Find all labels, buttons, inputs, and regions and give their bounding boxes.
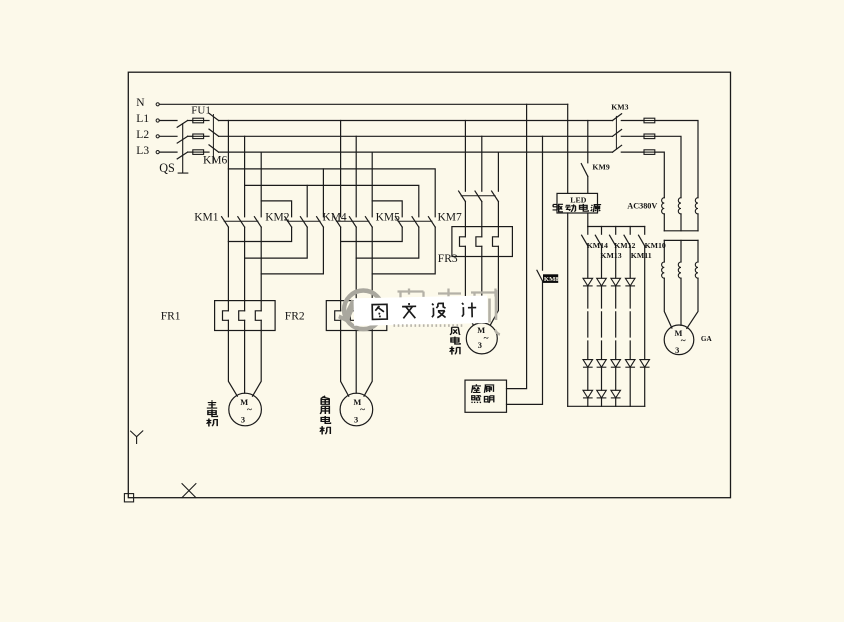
wire L3 drop to KM7 pole3 [497,152,499,191]
lighting box 座厕照明 [465,380,507,412]
contactor KM2 pole1 blade [285,217,292,227]
axis marker Y [131,431,143,444]
svg-text:3: 3 [354,415,358,424]
contactor KM1 pole2 blade [238,217,245,227]
wire string1 tail [587,398,589,406]
svg-text:KM4: KM4 [322,211,347,223]
svg-text:KM12: KM12 [614,241,635,250]
svg-text:FR1: FR1 [161,310,181,322]
svg-text:L1: L1 [136,113,149,125]
thermal relay FR2 box [326,301,387,331]
wire L3 entry [159,151,177,153]
wire primary star 1 [663,214,665,231]
wire L1 drop to KM4 pole1 [340,121,342,217]
wire primary star 2 [680,214,682,231]
watermark gray logo ring [344,291,383,330]
contactor KM6 pole 1 blade [209,113,219,120]
switch QS pole 3 [177,152,187,159]
diode row3 string3 [611,390,621,398]
wire FR3 through 1 [464,227,466,257]
contactor KM1 pole1 blade [222,217,229,227]
contactor KM5 pole2 blade [412,217,419,227]
wire primary star 3 [697,214,699,231]
contactor KM7 pole2 blade [475,191,482,201]
wire L1 bus [219,120,613,122]
wire LED driver output [587,213,589,227]
label 驱动电源 under LED [553,204,563,211]
contactor KM2 pole3 blade [317,217,324,227]
contactor KM5 pole3 blade [428,217,435,227]
wire KM8 to lighting box [507,281,543,404]
wire L3 after KM3 [621,151,644,153]
watermark gray dotted line [394,324,464,327]
wire LED string 3 drop [615,227,617,235]
KM4 linkage [336,220,369,222]
FR1 element 3 [255,311,261,321]
motor M1 circle [229,393,262,426]
wire N end drop to LED driver [567,104,569,193]
wire string4 tail [629,367,631,406]
wire secondary drop 3 [697,240,699,262]
wire FR2 through 2 [355,301,357,331]
wire L3 to primary left [655,152,665,198]
wire L1 drop to KM1 pole1 [227,121,229,217]
wire FR3 to fan left [465,257,473,325]
wire L1 after KM3 [621,120,644,122]
KM2 linkage [287,220,320,222]
contactor KM7 pole3 blade [492,191,499,201]
wire LED string 4 drop [629,227,631,235]
svg-text:~: ~ [247,405,252,415]
FR2 element 1 [335,311,341,321]
FR1 element 1 [223,311,229,321]
transformer secondary coil 1 [662,262,665,278]
wire L2 QS to fuse [188,135,193,137]
svg-text:~: ~ [681,337,686,347]
wire string3 dashed [615,286,617,360]
wire row B (L2 branch) [245,185,419,216]
svg-text:~: ~ [484,334,489,344]
wire FR3 to fan mid [481,257,483,323]
KM6 linkage [212,115,214,163]
contactor KM13 blade [595,235,601,246]
contactor KM6 pole 3 blade [209,145,219,152]
wire KM7 pole3 to FR3 [497,202,499,227]
diode row1 string3 [611,278,621,286]
wire L2 drop to KM1 pole2 [244,136,246,217]
fuse FU2 pole2 [644,134,655,139]
wire KM5 pole3 out join [372,227,435,274]
wire FR1 to motor1 right [253,331,262,397]
diode row3 string2 [597,390,607,398]
wire secondary drop 1 [663,240,665,262]
svg-text:FU1: FU1 [191,105,211,117]
label KM8 inverse chip [543,274,558,283]
wire N drop to lighting box [507,104,527,388]
svg-text:FR2: FR2 [285,310,305,322]
KM3 linkage [615,116,617,149]
wire string1 seg1 [587,246,589,278]
contactor KM5 pole1 blade [395,217,402,227]
svg-text:LED: LED [570,195,586,204]
diode row2 string5 [640,360,650,368]
motor fan circle [466,323,497,354]
wire fuse to KM6 pole3 [204,151,209,153]
watermark gray text tops (behind box) [398,289,498,299]
diode row2 string1 [583,360,593,368]
watermark gray glyph right of box [490,290,501,334]
contactor KM9 blade [581,164,588,177]
FR3 element 1 [460,237,466,247]
wire row A (L1 branch) [228,169,435,217]
transformer primary coil 1 [662,198,665,214]
wire KM2 pole3 out join [261,227,323,274]
svg-text:KM8: KM8 [544,276,560,283]
wire string3 seg3 [615,367,617,390]
diode row1 string2 [597,278,607,286]
wire string4 seg1 [629,246,631,278]
diode row2 string2 [597,360,607,368]
wire KM5 pole2 out join [356,227,419,258]
svg-text:3: 3 [241,415,245,424]
wire secondary to gen left [664,278,672,328]
contactor KM4 pole3 blade [365,217,372,227]
wire L2 bus [219,135,613,137]
wire L1 to primary right [655,121,698,198]
wire FR2 to motor2 left [341,331,349,397]
wire KM4 pole1 down to FR2 [340,227,342,301]
svg-text:KM14: KM14 [587,241,608,250]
watermark text 图 文 设 计 [372,302,476,320]
frame border [128,72,730,498]
label 主电机 (main motor) [207,400,217,408]
svg-text:QS: QS [159,161,175,175]
diode row2 string4 [625,360,635,368]
transformer secondary coil 2 [678,262,681,278]
svg-text:3: 3 [675,346,679,355]
contactor KM3 pole3 blade [613,145,622,152]
wire KM7 pole2 to FR3 [481,202,483,227]
axis marker X [182,484,196,498]
wire string5 tail [644,367,646,406]
wire LED bottom bus [568,405,645,407]
FR1 element 2 [239,311,245,321]
transformer primary coil 3 [695,198,698,214]
wire L2 to primary mid [655,136,681,197]
wire KM1 pole1 down to FR1 [227,227,229,301]
diode row1 string1 [583,278,593,286]
FR3 element 2 [476,237,482,247]
svg-text:KM2: KM2 [265,211,290,223]
svg-text:KM5: KM5 [376,211,401,223]
label 备用电机 (backup motor) [321,396,330,404]
contactor KM6 pole 2 blade [209,129,219,136]
QS linkage [178,124,188,173]
wire string2 seg3 [601,367,603,390]
contactor KM3 pole1 blade [613,114,622,121]
KM5 linkage [398,220,432,222]
svg-text:KM7: KM7 [438,211,463,223]
contactor KM11 blade [624,235,630,246]
diode row2 string3 [611,360,621,368]
wire KM2 pole2 from row B [306,185,308,216]
contactor KM7 pole1 blade [459,191,466,201]
node N terminal [156,103,159,106]
wire L2 drop to KM7 pole2 [481,136,483,191]
wire string1 dashed [587,286,589,360]
wire LED string 5 drop [644,227,646,235]
KM1 linkage [224,220,258,222]
wire N bus [159,103,567,105]
wire KM7 pole1 to FR3 [464,202,466,227]
contactor KM14 blade [582,235,588,246]
FR2 element 3 [366,311,372,321]
contactor KM1 pole3 blade [254,217,261,227]
svg-text:L3: L3 [136,145,149,157]
wire fuse to KM6 pole1 [204,120,209,122]
wire L1 QS to fuse [188,120,193,122]
diode row1 string4 [625,278,635,286]
svg-text:3: 3 [478,341,482,350]
fuse FU1 pole 3 [193,150,204,155]
wire fuse to KM6 pole2 [204,135,209,137]
FR2 element 2 [350,311,356,321]
wire FR1 through 3 [260,301,262,331]
wire row C1 (L3 to KM2 pole1) [261,201,291,217]
contactor KM12 blade [610,235,616,246]
watermark gray logo wedge [342,300,357,322]
wire secondary to gen right [687,278,698,328]
label 座厕照明 in lighting box [472,384,481,393]
contactor KM3 pole2 blade [613,130,622,137]
wire string4 dashed [629,286,631,360]
label 风电机 (fan motor) [450,327,460,335]
generator GA circle [664,325,694,355]
svg-text:KM13: KM13 [600,251,621,260]
wire row C2 (L3 to KM5 pole1) [372,201,402,217]
thermal relay FR1 box [215,301,276,331]
svg-text:KM6: KM6 [203,155,228,167]
wire L2 drop to KM8 [542,136,544,270]
wire KM2 pole1 out join [228,227,291,241]
wire string2 seg1 [601,246,603,278]
wire LED string1 to contact [587,227,589,235]
contactor KM10 blade [639,235,645,246]
wire L2 drop to KM4 pole2 [355,136,357,217]
wire LED driver return [567,213,569,406]
wire FR2 through 1 [340,301,342,331]
fuse FU2 pole1 [644,118,655,123]
svg-text:GA: GA [701,335,713,343]
transformer secondary coil 3 [695,262,698,278]
svg-text:KM9: KM9 [592,163,609,172]
svg-text:KM10: KM10 [645,241,666,250]
wire string3 tail [615,398,617,406]
contactor KM4 pole2 blade [349,217,356,227]
wire string2 tail [601,398,603,406]
wire L3 bus [219,151,613,153]
svg-text:KM11: KM11 [631,251,652,260]
wire FR3 to fan right [490,257,498,325]
contactor KM4 pole1 blade [334,217,341,227]
svg-text:N: N [136,97,145,109]
wire KM4 pole3 down to FR2 [371,227,373,301]
wire L2 after KM3 [621,135,644,137]
wire LED string 2 drop [601,227,603,235]
wire L3 QS to fuse [188,151,193,153]
wire string5 solid [644,246,646,360]
wire FR2 to motor2 mid [355,331,357,394]
wire secondary to gen mid [680,278,682,325]
wire FR2 to motor2 right [364,331,372,397]
transformer primary coil 2 [678,198,681,214]
FR3 element 3 [493,237,499,247]
switch QS pole 1 [177,121,187,128]
wire string1 seg3 [587,367,589,390]
wire KM2 pole2 out join [245,227,308,258]
node L3 terminal [156,151,159,154]
watermark white box [354,296,488,326]
wire L3 drop to KM1 pole3 [260,152,262,217]
wire L3 drop to KM4 pole3 [371,152,373,217]
contactor KM8 blade [537,270,543,281]
motor M2 circle [340,393,373,426]
diode row3 string1 [583,390,593,398]
wire secondary drop 2 [680,240,682,262]
wire string3 seg1 [615,246,617,278]
wire KM2 pole3 from row A [322,169,324,217]
wire KM9 to LED driver [587,176,589,193]
svg-text:KM3: KM3 [611,103,628,112]
wire FR1 through 1 [227,301,229,331]
wire FR2 through 3 [371,301,373,331]
KM7 linkage [461,195,495,197]
origin square [124,494,133,502]
svg-text:KM1: KM1 [194,211,219,223]
node L1 terminal [156,119,159,122]
wire KM1 pole2 down to FR1 [244,227,246,301]
svg-text:AC380V: AC380V [627,202,657,211]
wire KM1 pole3 down to FR1 [260,227,262,301]
node L2 terminal [156,135,159,138]
wire FR3 through 3 [497,227,499,257]
wire LED top bus [588,226,645,228]
wire FR1 through 2 [244,301,246,331]
thermal relay FR3 box [452,227,513,257]
wire secondary bus [664,239,698,241]
wire L1 drop to KM7 pole1 [464,121,466,192]
wire L1 entry [159,120,177,122]
wire string2 dashed [601,286,603,360]
fuse FU1 pole 1 [193,118,204,123]
wire FR3 through 2 [481,227,483,257]
wire FR1 to motor1 mid [244,331,246,394]
fuse FU2 pole3 [644,150,655,155]
switch QS pole 2 [177,136,187,143]
wire primary star bus [664,230,698,232]
LED driver box [557,193,598,213]
wire KM4 pole2 down to FR2 [355,227,357,301]
svg-text:FR3: FR3 [438,253,458,265]
fuse FU1 pole 2 [193,134,204,139]
svg-text:~: ~ [360,405,365,415]
svg-text:L2: L2 [136,129,149,141]
contactor KM2 pole2 blade [300,217,307,227]
wire L2 entry [159,135,177,137]
wire KM5 pole1 out join [341,227,403,241]
wire L1 tap to KM9 [587,121,589,163]
wire FR1 to motor1 left [228,331,237,397]
